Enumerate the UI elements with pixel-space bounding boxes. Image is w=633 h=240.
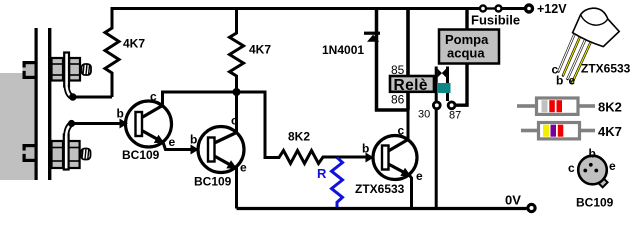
svg-text:Relè: Relè xyxy=(394,77,428,94)
upper electrode bolt: threaded stub xyxy=(82,64,92,75)
svg-text:e: e xyxy=(416,169,423,183)
upper electrode bolt: nut 2 xyxy=(69,58,80,81)
wire: terminal 30 down to 0V rail xyxy=(435,110,438,209)
upper electrode wire (insulated) xyxy=(67,85,73,97)
terminal 30 xyxy=(433,102,440,109)
resistor 4K7 (R1) with leads to +12V rail and electrode wire xyxy=(105,7,119,97)
svg-text:b: b xyxy=(362,142,369,156)
svg-text:86: 86 xyxy=(391,93,405,107)
lower electrode bolt: nut 2 xyxy=(69,141,80,168)
wire: TR2 emitter down to 0V rail xyxy=(235,167,238,209)
svg-text:b: b xyxy=(589,147,596,161)
svg-text:c: c xyxy=(150,90,157,104)
terminal 87 xyxy=(448,102,455,109)
upper electrode bolt: nut 1 xyxy=(52,58,64,81)
svg-text:acqua: acqua xyxy=(447,46,485,61)
junction dot collector bus xyxy=(233,88,241,96)
svg-text:e: e xyxy=(169,135,176,149)
svg-text:BC109: BC109 xyxy=(122,148,160,162)
svg-text:8K2: 8K2 xyxy=(598,100,622,115)
relay contact points xyxy=(438,69,442,78)
transistor TR1 BC109 xyxy=(120,101,172,147)
svg-text:b: b xyxy=(117,107,124,121)
relay contact: right leg (pin 87) xyxy=(446,67,449,102)
svg-text:b: b xyxy=(190,133,197,147)
wire: bus corner down + resistor 8K2 + wire to TR3 base xyxy=(265,91,366,164)
tank wall inner line xyxy=(35,28,38,180)
wire: TR3 emitter down to 0V rail xyxy=(410,175,412,208)
wire: relay coil bottom xyxy=(406,91,410,110)
relay contact armature (teal) xyxy=(437,83,451,93)
svg-text:c: c xyxy=(568,161,575,175)
wire: TR2 collector to bus xyxy=(235,92,238,133)
terminal +12V xyxy=(526,5,533,12)
svg-text:ZTX6533: ZTX6533 xyxy=(581,62,631,76)
upper electrode wire junction dot xyxy=(69,93,76,100)
svg-text:8K2: 8K2 xyxy=(288,130,310,144)
wire: TR3 collector up to relay coil node xyxy=(407,110,410,140)
transistor TR3 ZTX6533 xyxy=(366,136,418,180)
svg-text:BC109: BC109 xyxy=(576,196,614,210)
wire: upper electrode to resistor R1 xyxy=(73,96,112,99)
wire: pump bottom to relay contact 87 xyxy=(455,64,467,106)
svg-text:Fusibile: Fusibile xyxy=(471,13,520,28)
water (tank) xyxy=(0,73,35,180)
wire: TR1 emitter to TR2 base xyxy=(163,142,191,149)
wire: pump to +12V rail xyxy=(465,7,468,30)
svg-text:87: 87 xyxy=(449,110,461,122)
lower electrode wire (insulated) xyxy=(66,124,71,136)
0V rail xyxy=(237,207,527,210)
upper electrode solder lug xyxy=(64,53,69,87)
svg-text:e: e xyxy=(240,161,247,175)
svg-text:e: e xyxy=(569,74,576,88)
terminal 0V xyxy=(528,204,535,211)
resistor R (blue) to 0V rail xyxy=(332,158,343,209)
tank wall outer line xyxy=(48,28,51,180)
4K7 resistor drawing xyxy=(521,123,595,139)
lower electrode wire junction dot xyxy=(68,120,75,127)
lower electrode solder lug xyxy=(64,135,69,170)
svg-text:R: R xyxy=(317,166,327,181)
svg-text:e: e xyxy=(609,159,616,173)
svg-text:+12V: +12V xyxy=(537,2,567,16)
lower electrode tip (screw head) xyxy=(23,144,35,162)
svg-text:ZTX6533: ZTX6533 xyxy=(355,182,405,196)
relay contact: left leg (pin 30) xyxy=(435,67,438,102)
svg-text:BC109: BC109 xyxy=(194,175,232,189)
svg-text:85: 85 xyxy=(391,63,405,77)
svg-text:0V: 0V xyxy=(505,193,521,208)
svg-text:b: b xyxy=(556,74,563,88)
upper electrode tip (screw head) xyxy=(23,61,35,79)
svg-text:4K7: 4K7 xyxy=(598,124,622,139)
lower electrode bolt: nut 1 xyxy=(52,141,64,168)
relay coil box Relè xyxy=(390,76,434,94)
svg-text:4K7: 4K7 xyxy=(123,37,145,51)
8K2 resistor drawing xyxy=(517,98,595,114)
svg-text:4K7: 4K7 xyxy=(249,43,271,57)
diode 1N4001 symbol xyxy=(364,32,380,42)
diode 1N4001 branch xyxy=(377,7,410,110)
lower electrode bolt: threaded stub xyxy=(81,149,91,160)
svg-text:c: c xyxy=(398,124,405,138)
transistor TR2 BC109 xyxy=(191,127,245,173)
resistor 4K7 (R2) from rail to collector node xyxy=(230,9,244,93)
wire: +12V top rail xyxy=(111,7,480,10)
svg-text:30: 30 xyxy=(418,109,430,121)
wire: TR1 collector up and right along collector bus xyxy=(163,92,266,106)
ZTX6533 package drawing xyxy=(559,8,620,83)
wire: relay coil top to +12V rail xyxy=(406,7,410,77)
BC109 package drawing (TO-18 bottom view) xyxy=(578,156,607,188)
wire: lower electrode to base of TR1 xyxy=(72,122,121,125)
pump box Pompa acqua xyxy=(439,30,499,64)
fuse symbol xyxy=(480,6,502,12)
wire: fuse to +12V terminal xyxy=(503,7,525,10)
svg-text:1N4001: 1N4001 xyxy=(322,43,364,57)
